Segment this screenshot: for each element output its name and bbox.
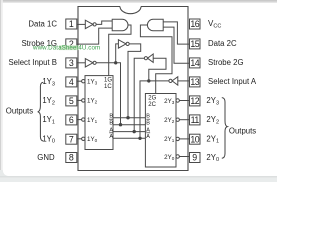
wire pin2 to AND gate G1 lower input (77, 28, 112, 44)
svg-text:Outputs: Outputs (6, 106, 33, 115)
wire pin4 to block 1 output (77, 80, 82, 82)
svg-text:2Y1: 2Y1 (206, 134, 219, 144)
svg-text:8: 8 (69, 153, 74, 163)
pin 15 (190, 39, 201, 49)
svg-text:15: 15 (190, 39, 199, 49)
svg-text:B: B (146, 120, 150, 126)
wire pin5 to block 1 output (77, 99, 82, 101)
inverter U4 (makes A, points left) (148, 54, 154, 62)
svg-text:13: 13 (190, 77, 199, 87)
svg-text:1Y3: 1Y3 (42, 77, 55, 87)
label B-not (block 1) (109, 119, 113, 126)
pin 9 (190, 153, 201, 163)
pin 13 (190, 77, 201, 87)
IC body DIP-16 outline (78, 7, 188, 171)
watermark highlight band (59, 45, 79, 50)
svg-text:Data 1C: Data 1C (28, 19, 57, 28)
svg-text:A: A (109, 127, 113, 133)
wire U4 input from A-not line (149, 58, 166, 81)
wire AND gate G1 output to decoder block 1 gate input (109, 25, 131, 76)
inverter U5 (select A, points left) (172, 77, 178, 85)
AND gate G2 (mirrored) (147, 19, 163, 30)
svg-text:1Y1: 1Y1 (42, 115, 55, 125)
svg-text:5: 5 (69, 96, 74, 106)
svg-text:2Y0: 2Y0 (164, 154, 175, 161)
svg-text:2Y2: 2Y2 (206, 115, 219, 125)
svg-text:1Y3: 1Y3 (87, 78, 98, 85)
svg-text:A: A (146, 134, 150, 140)
svg-text:1Y0: 1Y0 (87, 136, 98, 143)
pin 1 (66, 19, 77, 29)
select line A (113, 131, 145, 133)
svg-text:Select Input A: Select Input A (208, 77, 257, 86)
junction dot select line B-not (119, 123, 122, 126)
svg-text:3: 3 (69, 58, 74, 68)
output bubble 1Y2 (82, 99, 85, 102)
wire pin1 to inverter U1 (77, 23, 86, 25)
wire AND gate G2 output to decoder block 2 gate input (140, 25, 172, 94)
pin 6 (66, 115, 77, 125)
svg-text:2Y3: 2Y3 (164, 98, 175, 105)
svg-text:9: 9 (192, 153, 197, 163)
svg-text:10: 10 (190, 134, 199, 144)
inverter U2 (select B) (85, 59, 93, 67)
label B-not (block 2) (146, 119, 150, 126)
svg-text:Select Input B: Select Input B (8, 58, 57, 67)
notch (120, 7, 141, 14)
pin 16 (190, 19, 201, 29)
output bubble 2Y2 (176, 118, 179, 121)
junction dot A-not line tap (147, 79, 150, 82)
wire pin15 to AND gate G2 top input (163, 22, 189, 44)
inverter U3 (makes B) (118, 40, 126, 48)
wire pin14 to AND gate G2 lower input (163, 27, 189, 63)
svg-text:1C: 1C (104, 84, 112, 90)
svg-text:14: 14 (190, 58, 199, 68)
select line B-not (113, 124, 145, 126)
pin 11 (190, 115, 201, 125)
junction dot select line B (126, 116, 129, 119)
svg-text:VCC: VCC (208, 19, 221, 30)
output bubble 2Y1 (176, 137, 179, 140)
junction dot pin3 line tap (114, 61, 117, 64)
select line B (113, 117, 145, 119)
label A-not (block 2) (146, 133, 150, 140)
wire pin6 to block 1 output (77, 119, 82, 121)
wire block 2 output to pin 9 (179, 156, 189, 158)
svg-text:11: 11 (191, 115, 200, 125)
pin 3 (66, 58, 77, 68)
junction dot select line A-not (138, 137, 141, 140)
svg-text:2Y2: 2Y2 (164, 117, 175, 124)
wire pin13 to inverter U5 (178, 80, 190, 82)
svg-text:Outputs: Outputs (229, 127, 256, 136)
svg-text:www.DataSheet4U.com: www.DataSheet4U.com (32, 44, 100, 51)
svg-text:2Y3: 2Y3 (206, 96, 219, 106)
svg-text:Data 2C: Data 2C (208, 39, 237, 48)
junction dot select line A (133, 130, 136, 133)
svg-text:2G: 2G (148, 96, 156, 102)
svg-text:B: B (109, 113, 113, 119)
outputs brace right (222, 98, 228, 159)
pin 7 (66, 134, 77, 144)
output bubble 1Y0 (82, 137, 85, 140)
page edge shading (decorative) (0, 0, 277, 2)
pin 8 (66, 153, 77, 163)
svg-text:GND: GND (37, 153, 55, 162)
decoder block 1 (1G/1C) (85, 76, 113, 150)
svg-text:6: 6 (69, 115, 74, 125)
svg-text:16: 16 (190, 19, 199, 29)
wire U4 output to A line (134, 58, 144, 131)
svg-text:1Y1: 1Y1 (87, 117, 98, 124)
svg-text:1: 1 (69, 19, 74, 29)
svg-text:1Y2: 1Y2 (87, 98, 98, 105)
pin 2 (66, 39, 77, 49)
svg-text:2C: 2C (148, 102, 156, 108)
svg-text:A: A (146, 127, 150, 133)
wire pin3 to inverter U2 (77, 62, 86, 64)
wire block 2 output to pin 10 (179, 138, 189, 140)
pin 14 (190, 58, 201, 68)
svg-text:B: B (146, 113, 150, 119)
wire pin7 to block 1 output (77, 138, 82, 140)
wire tap to inverter U3 input (116, 44, 119, 63)
svg-text:Strobe 2G: Strobe 2G (208, 58, 244, 67)
svg-text:B: B (109, 120, 113, 126)
svg-text:12: 12 (190, 96, 199, 106)
wire U3 output to B line (128, 44, 141, 118)
wire inverter U1 to AND gate G1 top input (96, 21, 112, 24)
label A-not (block 1) (109, 133, 113, 140)
wire B-not line from U2 to vertical V1 (96, 63, 120, 125)
inverter U1 (data 1C) (85, 20, 93, 28)
output bubble 2Y3 (176, 99, 179, 102)
svg-text:4: 4 (69, 77, 74, 87)
pin 5 (66, 96, 77, 106)
outputs brace left (38, 82, 44, 141)
select line A-not (113, 137, 145, 139)
wire block 2 output to pin 12 (179, 100, 189, 102)
svg-text:A: A (109, 134, 113, 140)
wire A-not line from U5 to vertical V4 (140, 81, 169, 138)
output bubble 2Y0 (176, 155, 179, 158)
decoder block 2 (2G/2C) (145, 94, 176, 168)
svg-text:2Y1: 2Y1 (164, 136, 175, 143)
svg-text:1Y2: 1Y2 (42, 96, 55, 106)
svg-text:1G: 1G (104, 78, 112, 84)
svg-text:1Y0: 1Y0 (42, 134, 55, 144)
AND gate G1 (112, 19, 128, 30)
svg-text:2Y0: 2Y0 (206, 153, 219, 163)
pin 4 (66, 77, 77, 87)
wire block 2 output to pin 11 (179, 119, 189, 121)
output bubble 1Y3 (82, 80, 85, 83)
output bubble 1Y1 (82, 118, 85, 121)
pin 12 (190, 96, 201, 106)
svg-text:7: 7 (69, 134, 74, 144)
pin 10 (190, 134, 201, 144)
